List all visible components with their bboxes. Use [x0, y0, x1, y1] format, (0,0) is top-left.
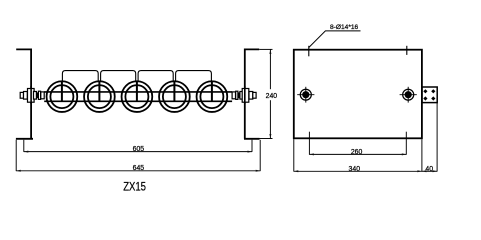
resistor disc 1 — [47, 81, 78, 112]
resistor disc 2 — [84, 81, 115, 112]
right rod hardware — [232, 89, 256, 103]
jumper 2-3 — [101, 71, 136, 81]
right bracket web over washer — [244, 86, 246, 104]
bend tick left — [308, 46, 310, 57]
right bracket — [244, 49, 260, 138]
svg-text:605: 605 — [133, 146, 145, 153]
right view plate — [294, 50, 422, 139]
svg-text:645: 645 — [133, 165, 145, 172]
svg-text:ZX15: ZX15 — [123, 179, 146, 193]
svg-text:340: 340 — [349, 166, 361, 173]
svg-text:8-Ø14*16: 8-Ø14*16 — [330, 24, 359, 31]
svg-text:40: 40 — [425, 166, 433, 173]
jumper 3-4 — [138, 71, 173, 81]
terminal holes — [423, 89, 435, 100]
svg-text:240: 240 — [266, 93, 278, 100]
dim 40 — [422, 103, 437, 172]
resistor disc 4 — [159, 81, 190, 112]
left rod hardware — [20, 89, 44, 103]
hole left — [297, 87, 314, 103]
terminal block — [422, 87, 437, 103]
rod band — [44, 92, 232, 101]
dim 260 — [309, 132, 406, 155]
resistor disc 3 — [122, 81, 153, 112]
jumper 1-2 — [62, 71, 98, 81]
left bracket — [16, 49, 33, 138]
hole right — [400, 87, 417, 103]
left bracket web over washer — [30, 86, 32, 104]
dim 340 — [294, 139, 422, 171]
svg-text:260: 260 — [351, 149, 363, 156]
leader 8-014*16 — [309, 31, 361, 48]
dim 605 — [24, 140, 252, 152]
bend tick right — [406, 46, 408, 55]
dim 240 — [259, 49, 272, 138]
resistor disc 5 — [197, 81, 228, 112]
dim 645 — [16, 140, 260, 171]
jumper 4-5 — [176, 71, 212, 81]
